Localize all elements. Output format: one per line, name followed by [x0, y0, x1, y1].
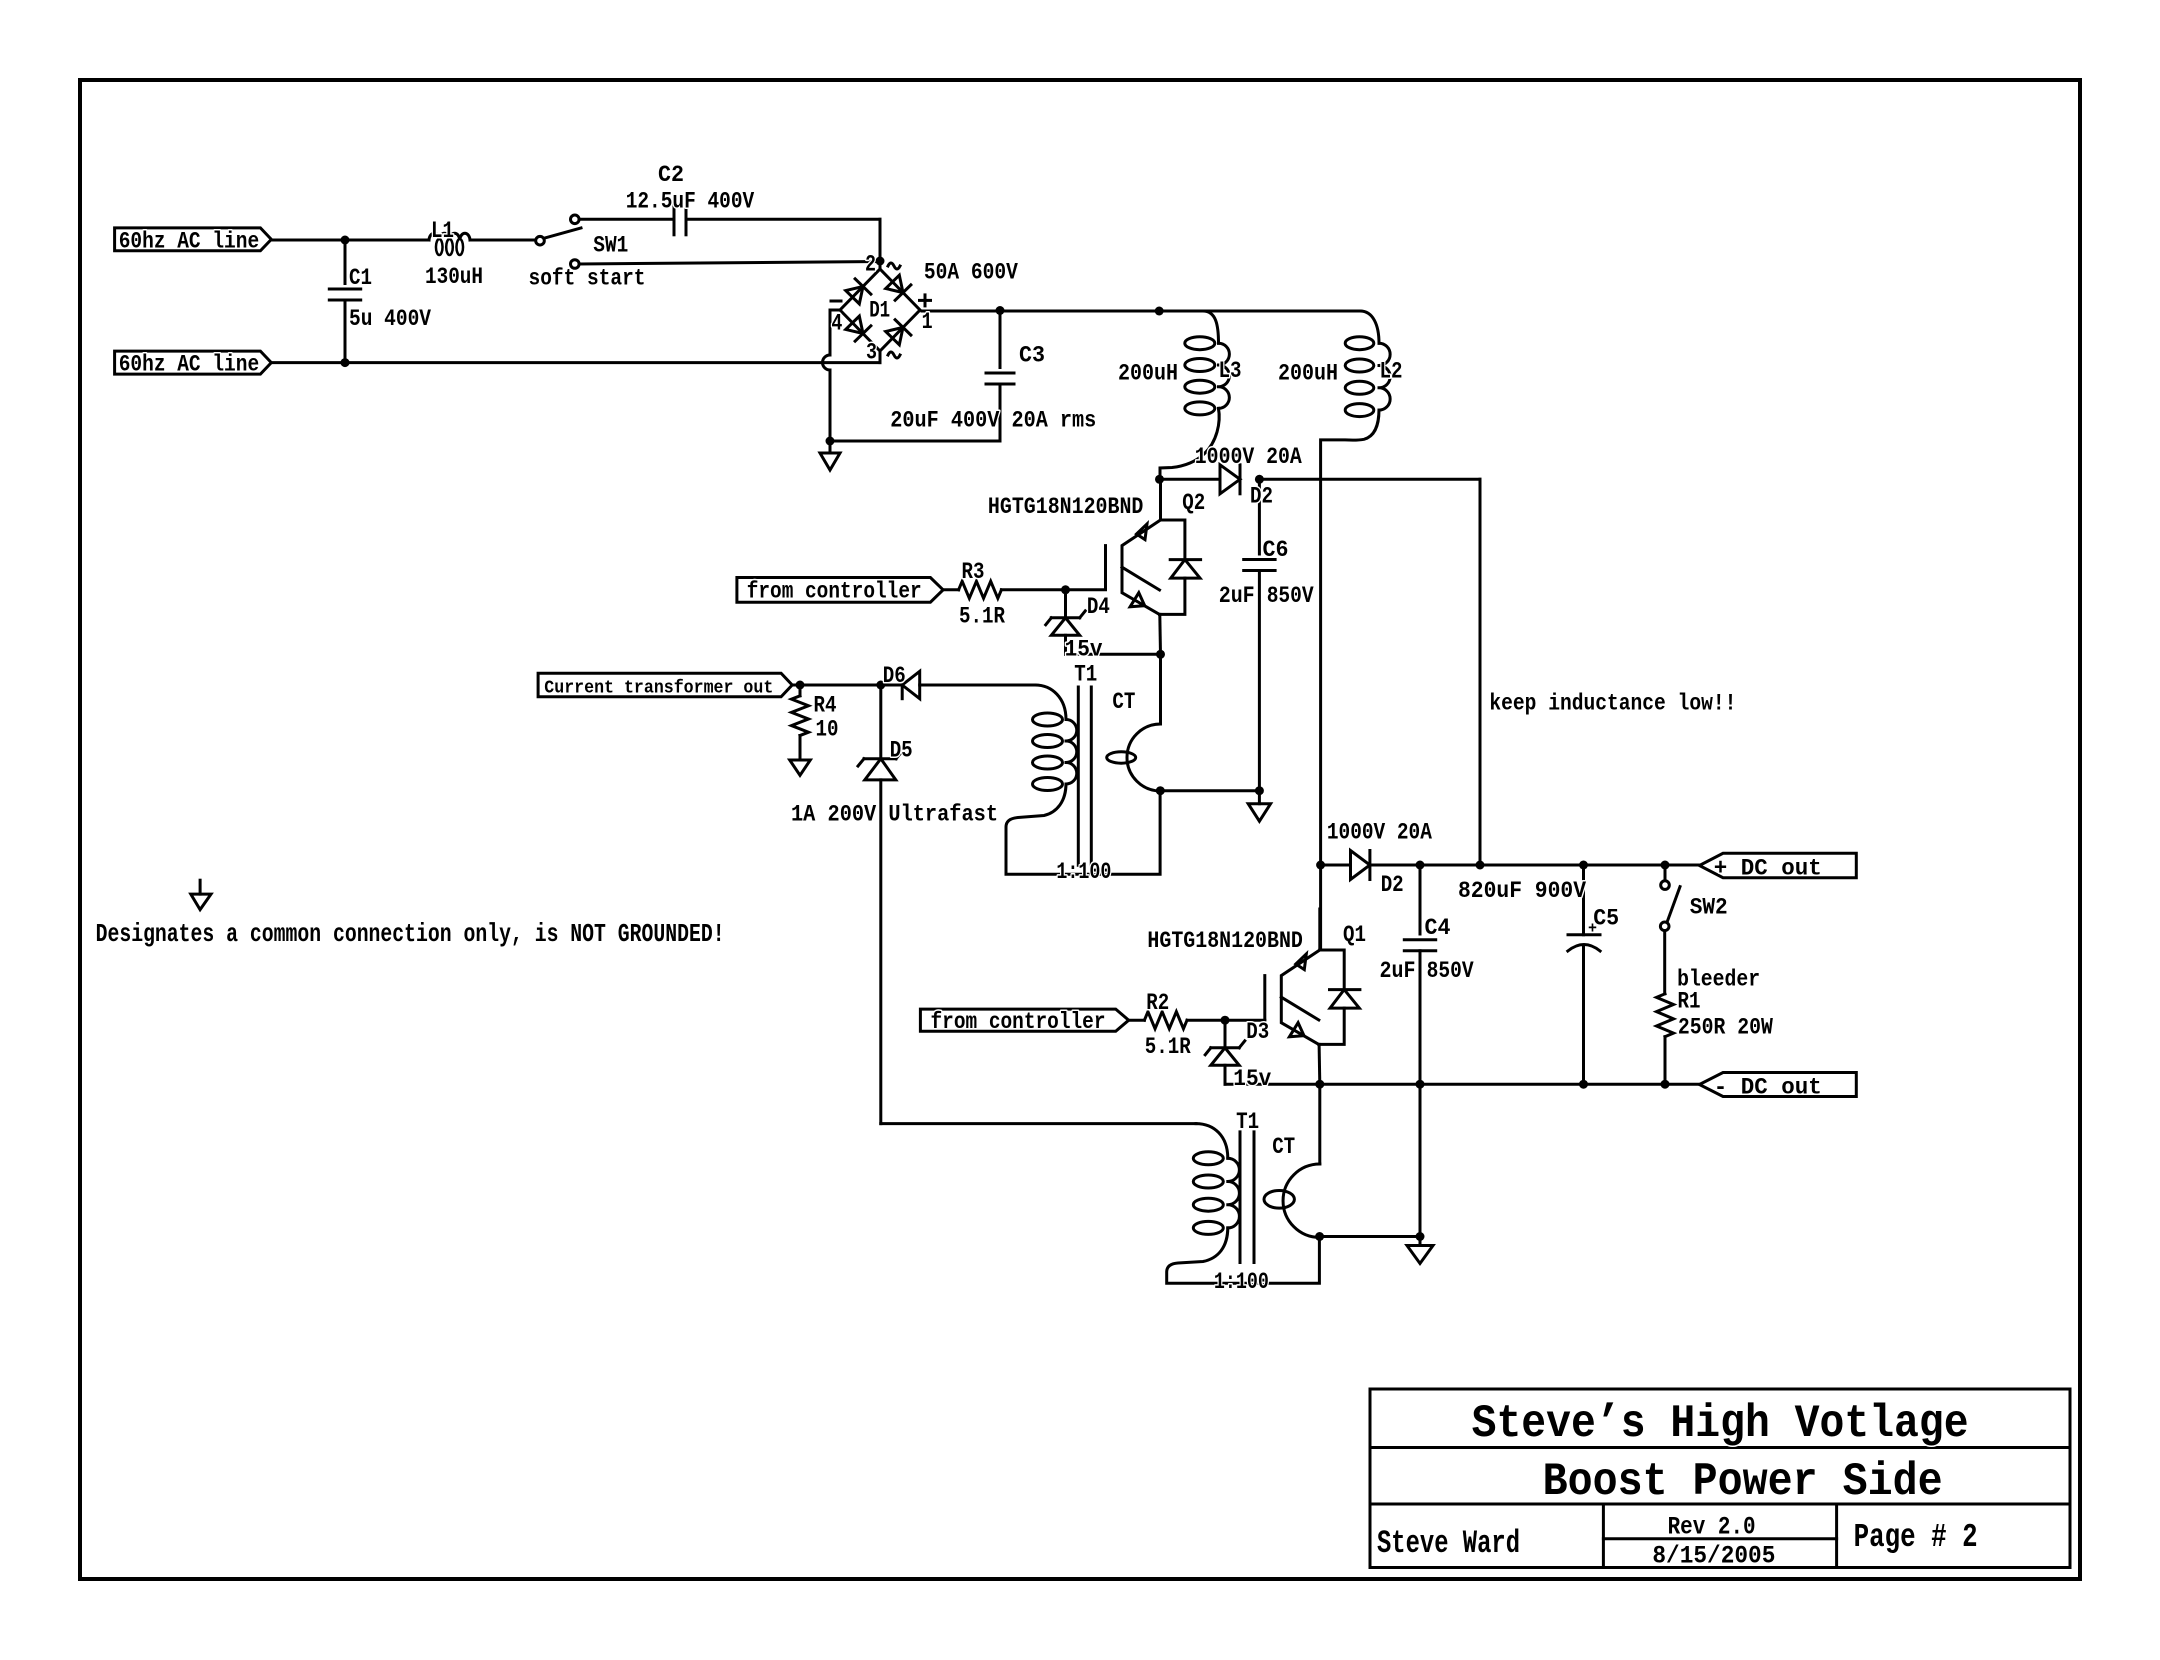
svg-text:T1: T1 [1074, 662, 1097, 689]
wire D6 to T1 primary [920, 684, 1035, 687]
diode D2 (top) 1000V 20A [1220, 465, 1240, 494]
node flag + DC out [1699, 853, 1856, 877]
svg-text:130uH: 130uH [425, 264, 483, 291]
wire emitter lead [1318, 1044, 1322, 1084]
bridge diode 2-1 [885, 274, 911, 300]
svg-text:250R 20W: 250R 20W [1678, 1014, 1774, 1041]
bridge labels [888, 263, 900, 269]
zener diode D4 15v [1064, 590, 1067, 618]
capacitor C5 820uF 900V electrolytic [1582, 865, 1585, 935]
node junction L3 tap [1155, 307, 1164, 316]
wire SW2 to R1 [1663, 931, 1666, 994]
svg-text:20uF 400V 20A rms: 20uF 400V 20A rms [890, 408, 1096, 435]
wire AC top from flag to C1 junction [271, 239, 345, 242]
node junction at C1 top [341, 236, 350, 245]
inductor L2 [1360, 311, 1379, 343]
IGBT body outline [1281, 950, 1320, 1044]
node junction C4 bottom / ground [1416, 1232, 1425, 1241]
svg-text:C6: C6 [1263, 537, 1289, 564]
svg-text:Steve’s High Votlage: Steve’s High Votlage [1472, 1398, 1969, 1450]
svg-text:SW1: SW1 [593, 233, 628, 260]
svg-text:1000V 20A: 1000V 20A [1195, 444, 1303, 471]
svg-text:keep inductance low!!: keep inductance low!! [1489, 691, 1736, 718]
wire L1 to SW1 pivot [470, 239, 536, 242]
ground symbol designation example [199, 880, 202, 894]
node junction R4 tap [796, 681, 805, 690]
svg-text:3: 3 [866, 340, 877, 367]
wire emitter lead [1158, 614, 1162, 654]
svg-text:from controller: from controller [747, 579, 922, 606]
capacitor C2 [673, 204, 676, 235]
switch SW2 [1661, 861, 1670, 870]
transformer T1 (top) core [1077, 687, 1080, 865]
wire L2 node to diode D2 bottom [1321, 864, 1351, 867]
IGBT internal diagonal [1122, 567, 1160, 590]
node junction bridge minus / C3 bottom rail [826, 437, 835, 446]
inductor L1 [429, 233, 470, 240]
svg-text:Boost Power Side: Boost Power Side [1543, 1456, 1943, 1508]
node junction D5 tap [876, 681, 885, 690]
resistor R2 5.1R [1144, 1012, 1187, 1029]
svg-text:15v: 15v [1233, 1066, 1271, 1093]
svg-text:60hz AC line: 60hz AC line [119, 228, 260, 255]
wire Q1 collector [1319, 865, 1322, 950]
ground symbol at T1 bottom [1419, 1237, 1422, 1246]
capacitor C3 [999, 311, 1002, 368]
svg-text:D2: D2 [1381, 872, 1404, 899]
svg-text:from controller: from controller [931, 1009, 1106, 1036]
node junction C4 / -DC rail [1416, 1080, 1425, 1089]
svg-text:Q2: Q2 [1182, 490, 1205, 517]
node junction R1 / -DC rail [1661, 1080, 1670, 1089]
node junction C3 top [996, 306, 1005, 315]
wire soft start to bridge top [579, 262, 880, 265]
node junction right riser to +DC rail [1476, 861, 1485, 870]
svg-text:D4: D4 [1087, 594, 1110, 621]
wire D2 to +DC rail [1370, 864, 1700, 867]
diode D2 (bottom) 1000V 20A [1351, 851, 1370, 880]
node junction C4 top [1416, 861, 1425, 870]
node junction at C1 bottom [341, 358, 350, 367]
ground symbol at T1 top [1258, 791, 1261, 804]
wire flag to D6 [792, 684, 902, 687]
svg-text:D5: D5 [890, 738, 913, 765]
capacitor C6 [1258, 479, 1261, 554]
svg-text:Steve Ward: Steve Ward [1377, 1525, 1520, 1562]
svg-text:50A 600V: 50A 600V [924, 260, 1019, 287]
svg-text:D2: D2 [1250, 484, 1273, 511]
svg-text:C4: C4 [1425, 915, 1451, 942]
svg-text:C1: C1 [349, 265, 372, 292]
IGBT gate bar [1104, 546, 1107, 590]
svg-text:C2: C2 [658, 162, 684, 189]
svg-text:D3: D3 [1246, 1019, 1269, 1046]
IGBT emitter arrow [1130, 593, 1145, 607]
svg-text:10: 10 [816, 717, 839, 744]
svg-text:Q1: Q1 [1343, 922, 1366, 949]
node junction T1 bottom CT [1315, 1232, 1324, 1241]
title block frame [1370, 1389, 2070, 1568]
capacitor C1 [344, 240, 347, 284]
resistor R1 250R 20W bleeder [1657, 994, 1674, 1037]
transistor IGBT body [1161, 520, 1185, 560]
transistor IGBT body [1320, 950, 1344, 990]
svg-text:L3: L3 [1219, 358, 1242, 385]
svg-text:2uF: 2uF [1380, 958, 1416, 985]
svg-text:Rev 2.0: Rev 2.0 [1668, 1513, 1756, 1542]
switch SW1 [536, 236, 545, 245]
node junction soft-start / bridge [876, 257, 885, 266]
svg-text:D6: D6 [883, 663, 906, 690]
IGBT internal diagonal [1281, 997, 1319, 1020]
wire R2 to Q1 gate [1187, 1019, 1265, 1022]
svg-text:8/15/2005: 8/15/2005 [1652, 1542, 1775, 1571]
svg-text:12.5uF 400V: 12.5uF 400V [626, 189, 755, 216]
IGBT body outline [1122, 520, 1161, 614]
svg-text:D1: D1 [869, 298, 890, 325]
transformer T1 (top) CT secondary winding [1159, 654, 1162, 724]
svg-text:SW2: SW2 [1690, 895, 1728, 922]
svg-text:R3: R3 [962, 559, 985, 586]
wire D3 bottom to -DC rail [1225, 1083, 1320, 1086]
svg-text:R1: R1 [1678, 989, 1701, 1016]
svg-text:200uH: 200uH [1278, 360, 1338, 387]
node junction Q1 emitter [1315, 1080, 1324, 1089]
IGBT collector arrow [1137, 524, 1148, 540]
node junction T1 secondary bottom [1156, 786, 1165, 795]
wire CT bottom to ground [1320, 1235, 1420, 1238]
svg-text:+ DC out: + DC out [1714, 856, 1822, 883]
svg-text:- DC out: - DC out [1714, 1075, 1822, 1102]
svg-text:HGTG18N120BND: HGTG18N120BND [988, 494, 1144, 521]
svg-text:5.1R: 5.1R [1145, 1034, 1192, 1061]
IGBT gate bar [1263, 976, 1266, 1020]
wire AC top junction to L1 [345, 239, 429, 242]
wire from-controller flag to R3 [737, 578, 943, 603]
node junction C6 bottom / ground [1255, 786, 1264, 795]
freewheel diode of IGBT [1330, 990, 1359, 1009]
node junction Q2 collector tap [1155, 475, 1164, 484]
svg-text:1: 1 [922, 309, 933, 336]
wire collector lead [1318, 909, 1321, 950]
node junction gate / D4 [1061, 585, 1070, 594]
node junction Q2 emitter / 15v [1156, 650, 1165, 659]
wire R3 to gate [1001, 588, 1105, 591]
inductor L3 [1203, 311, 1219, 343]
svg-text:5.1R: 5.1R [959, 604, 1006, 631]
node junction C5 bottom [1579, 1080, 1588, 1089]
diode D6 1A 200V Ultrafast [902, 671, 920, 698]
svg-text:HGTG18N120BND: HGTG18N120BND [1147, 928, 1303, 955]
-DC rail [1320, 1083, 1700, 1086]
svg-text:1:100: 1:100 [1056, 859, 1111, 886]
wire bridge minus to ground rail with hop over AC line [823, 310, 840, 441]
resistor R3 5.1R [959, 581, 1002, 598]
svg-text:2uF: 2uF [1219, 583, 1255, 610]
bridge rectifier D1 diamond [840, 269, 920, 351]
wire AC bottom line to bridge corner 3 [271, 361, 880, 364]
resistor R4 10 [792, 696, 809, 736]
node junction C5 top [1579, 861, 1588, 870]
svg-text:850V: 850V [1427, 958, 1475, 985]
svg-text:C3: C3 [1019, 343, 1045, 370]
node flag Current transformer out [538, 673, 792, 697]
svg-text:5u 400V: 5u 400V [349, 306, 432, 333]
IGBT collector arrow [1296, 954, 1307, 970]
svg-text:T1: T1 [1236, 1109, 1259, 1136]
svg-text:2: 2 [865, 252, 876, 279]
svg-text:850V: 850V [1267, 583, 1315, 610]
wire bottom rail to C3 [830, 440, 1000, 443]
node junction D2 cathode / C6 [1255, 475, 1264, 484]
node junction Q1 collector / L2 bottom [1316, 861, 1325, 870]
node flag - DC out [1699, 1073, 1856, 1097]
wire from-controller flag 2 to R2 [920, 1009, 1128, 1031]
svg-text:200uH: 200uH [1118, 360, 1178, 387]
wire D5 down to bottom T1 [879, 780, 882, 1124]
wire L3 bottom node to diode D2 (top) [1160, 478, 1220, 481]
transformer T1 (bottom) core [1239, 1132, 1242, 1263]
zener diode D3 15v [1224, 1020, 1227, 1048]
svg-text:1A 200V Ultrafast: 1A 200V Ultrafast [791, 802, 998, 829]
wire R1 to -DC rail [1664, 1037, 1667, 1085]
node junction gate / D3 [1221, 1016, 1230, 1025]
bridge diode 4-3 [845, 315, 871, 341]
transformer T1 (bottom) CT winding [1318, 1084, 1321, 1164]
svg-text:15v: 15v [1065, 637, 1103, 664]
wire D2 cathode to right riser [1259, 478, 1480, 481]
wire T1 secondary to ground / C6 [1160, 789, 1260, 792]
wire right riser down to +DC rail [1479, 479, 1482, 865]
wire D4 bottom 15v to emitter [1066, 653, 1161, 656]
node flag 60hz AC line (top) [115, 228, 272, 251]
freewheel diode of IGBT [1171, 560, 1200, 579]
bridge diode 3-1 [885, 320, 911, 346]
svg-text:soft start: soft start [529, 266, 646, 293]
svg-text:820uF 900V: 820uF 900V [1458, 878, 1587, 905]
zener diode D5 [879, 685, 882, 759]
svg-text:1000V 20A: 1000V 20A [1327, 820, 1433, 847]
bridge diode 4-2 [845, 279, 871, 305]
svg-text:L2: L2 [1380, 359, 1403, 386]
IGBT emitter arrow [1289, 1023, 1304, 1037]
svg-text:Page # 2: Page # 2 [1854, 1519, 1978, 1556]
wire collector lead [1159, 479, 1162, 520]
svg-text:60hz AC line: 60hz AC line [119, 352, 260, 379]
svg-text:C5: C5 [1593, 906, 1619, 933]
svg-text:Designates a common connection: Designates a common connection only, is … [96, 919, 725, 949]
transformer T1 (bottom) primary winding [1196, 1124, 1228, 1159]
ground symbol below R4 [799, 758, 802, 760]
svg-text:L1: L1 [431, 218, 454, 245]
wire SW1 top contact to C2 [579, 218, 674, 221]
svg-text:4: 4 [831, 311, 842, 338]
wire D5 line to T1 bottom primary [881, 1122, 1196, 1125]
wire C2 to bridge top corner [686, 218, 880, 221]
svg-text:CT: CT [1272, 1134, 1295, 1161]
svg-text:R2: R2 [1146, 990, 1169, 1017]
capacitor C4 2uF 850V [1419, 865, 1422, 934]
svg-text:Current transformer out: Current transformer out [544, 677, 773, 698]
transformer T1 (top) primary winding [1035, 685, 1066, 720]
svg-text:CT: CT [1112, 689, 1135, 716]
wire bridge plus output rail [922, 310, 1159, 313]
ground symbol at bridge [829, 441, 832, 453]
svg-text:1:100: 1:100 [1214, 1269, 1269, 1296]
wire plus rail to L2 [1159, 310, 1360, 313]
node flag 60hz AC line (bottom) [115, 351, 272, 374]
